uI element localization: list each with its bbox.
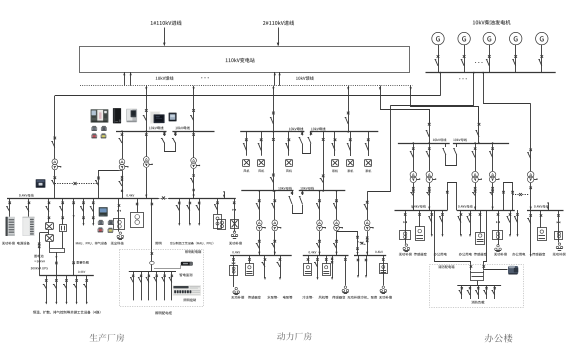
office B compensation column: [493, 210, 503, 252]
feeder F1 to bus A1: [143, 86, 148, 132]
office transformer T13: [489, 142, 499, 210]
lighting feeder column: [151, 198, 153, 249]
photo UPS monitor meter: [99, 207, 108, 216]
G2 double breaker column: [331, 255, 333, 280]
office 10kV bus tie: [442, 143, 456, 165]
label 10kV bus S1: [278, 187, 292, 190]
column P3 transformer T2: [119, 130, 129, 198]
office load label 办公用电: [434, 253, 447, 256]
generator G2 with breaker: [458, 32, 470, 72]
photo compensation cabinet: [6, 217, 15, 236]
G1 sensor transformer box: [246, 255, 254, 275]
production 0.4kV bus section1: [7, 198, 158, 200]
photo power cabinet: [22, 217, 34, 236]
load column power-supply cabinet: [26, 198, 31, 217]
office C sensor box: [538, 210, 547, 241]
G1 pump feeder: [277, 255, 282, 280]
indicator icon 1: [91, 126, 97, 131]
wire incoming 2 with arrow: [277, 28, 280, 47]
gen bus drop to wire W1a: [473, 72, 475, 106]
lighting main column with kwh meter: [150, 249, 155, 271]
pump motor feeder 350.3: [347, 132, 354, 173]
office 0.4kV tie B-C: [502, 183, 514, 211]
G3 feeder 2: [365, 255, 367, 278]
load label 电源设备: [17, 242, 30, 245]
photo gray protection cabinet: [126, 109, 137, 122]
label important load: [76, 261, 89, 264]
indicator icon 2: [101, 126, 107, 131]
power 10kV bus B2: [310, 131, 378, 133]
label G2 0.4kV: [309, 251, 317, 253]
label critical process equipment: [33, 311, 101, 314]
label fire loads: [471, 301, 484, 304]
UPS output column: [55, 252, 57, 275]
production 10kV bus A2: [172, 131, 214, 133]
office 0.4kV bus C: [527, 210, 564, 212]
label battery: [34, 255, 43, 258]
office load label 传感器变: [474, 253, 487, 256]
load label 无尘科技: [111, 242, 124, 245]
load column compensation cabinet: [6, 198, 11, 217]
bus tie A1-A2: [161, 131, 177, 151]
label G3 0.4kV: [375, 251, 383, 253]
fire box left input: [435, 211, 473, 271]
photo smart monitor bar: [181, 262, 193, 266]
gen bus drop to wire W3: [482, 72, 484, 104]
power load label 无功补偿: [231, 296, 244, 299]
power load label 传感器变: [248, 296, 261, 299]
office feeder column 2: [476, 107, 481, 144]
power 0.4kV bus G2: [303, 255, 349, 257]
label lighting cabinet: [155, 311, 172, 314]
indicator icon 3: [91, 133, 97, 138]
bus tie S1-S2: [289, 191, 304, 214]
label G1 0.4kV: [232, 251, 240, 253]
wire pair substation to 10kV bus A: [123, 72, 132, 86]
backup wire W0 generator to production: [55, 95, 441, 97]
load label 照明: [155, 242, 161, 245]
label smart monitor: [179, 273, 192, 276]
incoming line label 1#110kV: [151, 20, 182, 25]
power 0.4kV bus G1: [230, 255, 292, 257]
office load label 办公用电: [459, 253, 472, 256]
label lighting control: [184, 298, 196, 301]
dashed tie between standby columns: [358, 242, 367, 245]
label production 0.4kV bus: [19, 194, 34, 197]
office feeder column 1: [426, 110, 431, 145]
feeder nitrogen process: [196, 198, 201, 226]
fan motor feeder 246.4: [243, 132, 250, 172]
G2 chiller box: [304, 255, 312, 275]
photo protection relay panel: [91, 109, 109, 122]
UPS output 0.4kV bus: [39, 275, 94, 277]
office 10kV bus section2: [453, 143, 509, 145]
power transformer T5: [256, 190, 266, 255]
fire ATS: [471, 271, 484, 285]
office C compensation column: [555, 210, 563, 251]
power transformer T8: [333, 190, 343, 255]
fan motor feeder 261.2: [258, 132, 265, 172]
label battery capacity: [34, 260, 45, 262]
mid icon 3: [97, 227, 103, 232]
office 10kV bus section1: [398, 143, 450, 145]
label office 10kV bus 1: [433, 138, 447, 141]
gen bus drop to backup wire W0: [439, 72, 441, 96]
photo touchscreen meter: [150, 111, 165, 124]
wire pair substation to 10kV bus B: [274, 72, 281, 86]
tie B-C normally open link: [513, 193, 529, 196]
office load label 无功补偿: [399, 253, 412, 256]
power transformer T9 backup-fed: [364, 192, 374, 255]
power load label 无功补偿: [379, 296, 392, 299]
office transformer T12: [472, 142, 482, 210]
big label office building: [485, 334, 513, 343]
power load label 电泵等: [283, 296, 292, 299]
column P2 riser: [95, 171, 123, 199]
photo digital meter: [169, 113, 177, 122]
fire inner bus: [457, 285, 501, 287]
wire W3 to office backup transformer: [483, 104, 531, 149]
office transformer T10: [410, 142, 420, 210]
big label production plant: [90, 334, 125, 342]
G1 water pump feeder: [262, 255, 267, 280]
office C below-bus feeder: [527, 210, 532, 257]
UPS rectifier-inverter column: [46, 198, 54, 248]
photo black relay tower: [113, 108, 121, 123]
fire dashed enclosure: [430, 265, 524, 308]
label 10kV feeder left: [156, 76, 174, 80]
battery branch: [38, 233, 49, 276]
G3 compensation column: [380, 255, 388, 293]
office 0.4kV tie A-B: [446, 183, 456, 211]
bus C incoming stub: [547, 202, 549, 210]
important load bypass column: [72, 198, 74, 275]
photo lighting control panel: [173, 285, 201, 296]
feeder F6 to office bus section2: [410, 86, 479, 123]
office load label 办公用电: [512, 253, 525, 256]
feeder F3 to bus B1 and S1: [270, 86, 275, 192]
power 10kV bus B1: [240, 131, 304, 133]
power second 10kV bus S1: [241, 190, 293, 192]
label office 10kV bus 2: [453, 138, 467, 141]
column P5 transformer T4: [190, 131, 200, 198]
label 10kV bus B1: [289, 127, 303, 130]
label office bus B: [458, 205, 473, 208]
lighting branch circuits: [130, 272, 173, 301]
compensation column right: [231, 198, 239, 239]
feeder F2 to bus A2: [190, 86, 195, 132]
transfer box column: [131, 198, 144, 228]
power load label 冷机、泵类: [361, 296, 377, 299]
dotted 10kV feeder bus: [80, 85, 413, 87]
feeder with arrow 93: [90, 198, 95, 226]
dotted link to monitor device: [155, 266, 181, 269]
double ATS boxes column: [214, 198, 226, 230]
label 10kV feeder right: [296, 76, 314, 80]
office B feeder 2: [467, 210, 472, 237]
power load label 风机等: [319, 296, 329, 299]
office backup transformer T14: [527, 148, 537, 210]
battery string block: [50, 249, 65, 253]
office A compensation column: [400, 210, 411, 252]
fire box right input: [483, 211, 487, 271]
T8 branch to G3 standby: [337, 232, 359, 256]
load label 空分制氮工艺设备（MAU、PFU）: [170, 242, 213, 245]
G1 compensation column: [230, 255, 240, 294]
fire pump motor link: [484, 269, 508, 271]
harmonic filter column: [59, 198, 66, 248]
production 10kV bus A1: [116, 131, 167, 133]
label UPS bus 0.4kV: [78, 271, 85, 273]
ellipsis between feeders: [201, 77, 209, 78]
dotted tie P1-P2 normally open: [55, 182, 99, 185]
label 10kV bus A2: [175, 126, 189, 129]
generator 10kV bus: [426, 72, 556, 74]
lighting distribution dashed box: [120, 250, 204, 307]
production bus tie normally open: [158, 197, 169, 200]
wire W1a to power-plant backup riser: [367, 105, 474, 192]
label UPS: [31, 267, 48, 269]
office load label 传感器变: [414, 253, 427, 256]
power second 10kV bus S2: [299, 190, 346, 192]
G2 sensor box: [323, 255, 331, 275]
label 10kV diesel generators: [473, 20, 511, 25]
power load label 传感器变: [332, 296, 345, 299]
G3 feeder 1: [357, 255, 359, 278]
substation box 110kV: [80, 47, 410, 73]
office A sensor box: [416, 210, 425, 241]
office load label 无功补偿: [494, 253, 507, 256]
indicator icon 4: [101, 133, 107, 138]
photo fire pump: [508, 266, 518, 275]
backup column P1 with transformer T1: [51, 96, 61, 198]
load label 无功补偿: [2, 242, 15, 245]
pump motor feeder 368.3: [365, 132, 372, 173]
column P4 transformer T3: [143, 131, 153, 198]
load label MAU、PFU、排气设备: [76, 242, 107, 245]
feeder B2 to S2: [320, 132, 325, 192]
lighting inner 0.4kV bus: [129, 271, 176, 273]
production 0.4kV bus section2: [169, 198, 236, 200]
generator G1 with breaker: [432, 32, 444, 72]
label fire distribution box: [438, 265, 454, 268]
photo molded breaker: [36, 179, 46, 188]
ellipsis between generators: [475, 62, 483, 63]
office B feeder 3: [507, 210, 512, 237]
incoming line label 2#110kV: [263, 20, 294, 25]
big label power plant: [277, 332, 312, 340]
load label 无功补偿: [229, 242, 242, 245]
feeder MAU PFU 1: [176, 198, 181, 226]
ATS column with capacitor bank: [114, 198, 125, 240]
UPS critical process feeders 4 circuits: [43, 275, 88, 304]
feeder MAU PFU 2: [186, 198, 191, 226]
label 10kV bus S2: [300, 187, 314, 190]
feeder with arrow 83: [80, 198, 85, 226]
mid icon 1: [98, 220, 104, 225]
office load label 无功补偿: [553, 253, 566, 256]
pump motor feeder 335: [332, 132, 339, 173]
office B-end feeder: [514, 210, 519, 237]
feeder F4 to bus B2: [345, 86, 350, 133]
power load label 无功补偿: [347, 296, 360, 299]
G2 compensation capbank: [342, 255, 349, 293]
mid icon 2: [108, 220, 114, 225]
generator G3 with breaker: [483, 32, 495, 72]
power load label 水泵等-: [267, 296, 278, 299]
generator G5 with breaker: [536, 32, 548, 72]
label office bus C: [534, 205, 549, 208]
office B feeder 1: [458, 210, 463, 237]
label 10kV bus A1: [149, 126, 163, 129]
office A feeder 1: [428, 210, 433, 237]
office 0.4kV bus B: [457, 210, 515, 212]
fire load feeders: [459, 285, 496, 299]
office A feeder 2: [439, 210, 444, 237]
ellipsis below generator bus: [459, 78, 467, 79]
G2 fan feeder: [314, 255, 319, 280]
power load label 冷冻等-: [302, 296, 313, 299]
incoming stub arrow: [223, 191, 225, 198]
office load label 传感器变: [532, 253, 545, 256]
power 0.4kV bus G3: [354, 255, 386, 257]
power transformer T6: [271, 190, 281, 255]
office B sensor box: [476, 210, 485, 245]
office transformer T11: [426, 142, 436, 210]
office 0.4kV bus A: [395, 210, 448, 212]
power transformer T7: [316, 190, 326, 255]
bus tie B1-B2: [299, 132, 313, 154]
mid icon 4: [107, 228, 113, 233]
fan motor feeder 288.9: [285, 132, 292, 172]
label production 0.4kV mid: [126, 194, 134, 196]
label lighting box: [185, 250, 201, 253]
generator G4 with breaker: [510, 32, 522, 72]
feeder F5 to office bus section1: [379, 86, 430, 123]
wire incoming 1 with arrow: [163, 28, 166, 47]
label office bus A: [411, 205, 426, 208]
label 10kV bus B2: [311, 127, 325, 130]
